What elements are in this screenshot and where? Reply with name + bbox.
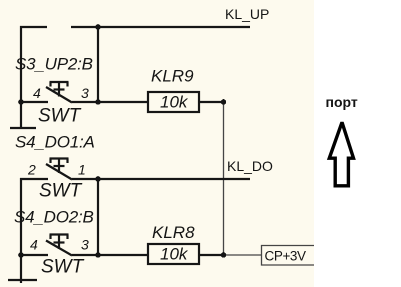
- schematic background: [0, 0, 314, 287]
- svg-text:10k: 10k: [160, 93, 189, 112]
- svg-text:S4_DO2:B: S4_DO2:B: [14, 208, 94, 227]
- svg-text:KL_DO: KL_DO: [227, 158, 273, 174]
- svg-text:4: 4: [30, 237, 38, 253]
- wire end bar: [10, 127, 36, 129]
- junction (98,27): [95, 24, 101, 30]
- switch S4_DO2 actuator: [50, 235, 69, 250]
- svg-text:SWT: SWT: [41, 257, 85, 278]
- svg-text:KLR8: KLR8: [152, 223, 195, 242]
- junction (224,255): [221, 252, 227, 258]
- wire R9 to node: [199, 101, 224, 103]
- switch S3_UP2:B blade: [46, 87, 72, 103]
- switch S4_DO1 actuator: [50, 159, 69, 174]
- switch S4_DO1:A blade: [46, 164, 72, 180]
- annotation arrow up: [329, 122, 353, 186]
- svg-text:3: 3: [81, 237, 89, 253]
- junction (98,179): [95, 176, 101, 182]
- junction (98,255): [95, 252, 101, 258]
- svg-text:KLR9: KLR9: [151, 67, 194, 86]
- wire S4_DO2 pin 3 to R8: [72, 254, 148, 256]
- wire S4_DO1 pin 2: [20, 178, 48, 180]
- wire node to CP+3V: [224, 254, 261, 256]
- switch S4_DO2:B blade: [46, 241, 72, 256]
- wire S3 pin 3 to R9: [72, 101, 148, 103]
- svg-text:CP+3V: CP+3V: [265, 248, 307, 263]
- svg-text:2: 2: [27, 162, 36, 178]
- junction (21,102): [18, 99, 24, 105]
- svg-text:1: 1: [78, 162, 86, 178]
- junction (224,102): [221, 99, 227, 105]
- svg-text:S4_DO1:A: S4_DO1:A: [15, 133, 95, 152]
- wire KL_UP net: [71, 26, 250, 28]
- wire KL_DO net: [72, 178, 250, 180]
- svg-text:SWT: SWT: [38, 106, 82, 127]
- svg-text:KL_UP: KL_UP: [225, 6, 269, 22]
- resistor KLR9: [148, 92, 199, 112]
- svg-text:порт: порт: [326, 94, 358, 110]
- wire S3 pin 4: [20, 101, 48, 103]
- wire top-left segment: [21, 27, 47, 129]
- svg-text:4: 4: [33, 85, 41, 101]
- svg-text:10k: 10k: [160, 245, 189, 264]
- wire vertical to S3 pin 3: [97, 26, 99, 102]
- wire R8 to node: [199, 254, 224, 256]
- wire S4_DO2 pin 4: [20, 254, 48, 256]
- wire end bar bottom: [8, 279, 37, 281]
- svg-text:3: 3: [81, 85, 89, 101]
- terminal CP+3V box: [262, 246, 315, 266]
- resistor KLR8: [148, 244, 199, 264]
- wire node to S4_DO2 pin3 vertical: [97, 179, 99, 255]
- svg-text:S3_UP2:B: S3_UP2:B: [15, 55, 93, 74]
- junction (21,255): [18, 252, 24, 258]
- wire bus vertical gray: [223, 102, 225, 255]
- junction (98,102): [95, 99, 101, 105]
- svg-text:SWT: SWT: [39, 181, 83, 202]
- wire left vertical bottom: [20, 178, 22, 283]
- switch S3 actuator: [50, 82, 69, 97]
